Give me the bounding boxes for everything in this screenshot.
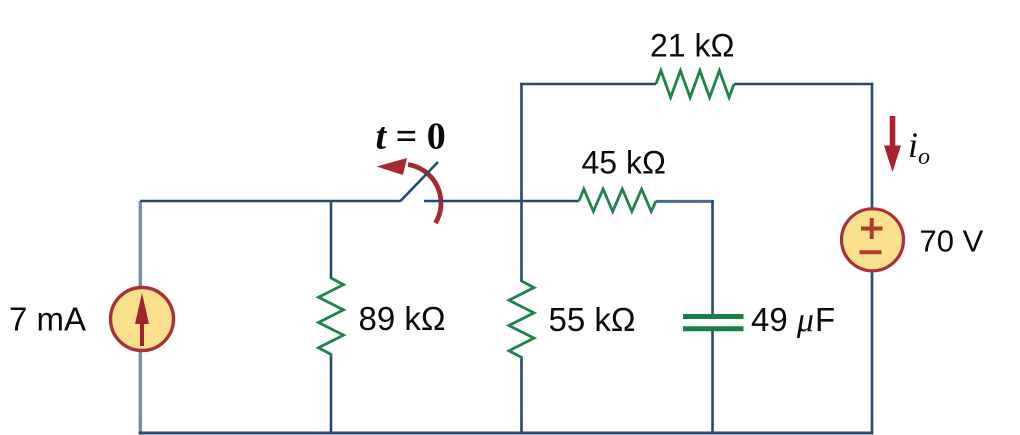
svg-text:89 kΩ: 89 kΩ: [359, 300, 446, 337]
svg-text:io: io: [908, 125, 930, 170]
wire 55k branch bottom lead: [520, 358, 523, 434]
svg-text:49 μF: 49 μF: [751, 301, 835, 339]
wire capacitor bottom lead: [711, 331, 714, 434]
svg-text:70 V: 70 V: [920, 224, 984, 259]
capacitor C 49 uF plates: [683, 314, 744, 319]
voltage source V1 70 V: [842, 209, 904, 271]
resistor 89 kOhm (vertical zigzag): [319, 278, 344, 357]
svg-text:21 kΩ: 21 kΩ: [650, 28, 734, 64]
wire capacitor top lead: [711, 200, 714, 314]
wire 55k branch top lead / left side of 21k loop: [520, 83, 523, 282]
svg-text:55 kΩ: 55 kΩ: [549, 301, 636, 338]
wire right vertical: [871, 83, 874, 434]
resistor 21 kOhm (horizontal zigzag): [656, 71, 734, 98]
switch blade: [400, 162, 438, 202]
current source I1 7 mA: [111, 288, 174, 351]
switch actuation arc t=0: [377, 158, 441, 223]
wire middle horizontal switch to 45k: [424, 200, 579, 203]
wire bottom: [139, 432, 874, 435]
wire 89k branch bottom lead: [330, 356, 333, 434]
wire top horizontal left of 21k: [520, 83, 656, 86]
wire 89k branch top lead: [330, 201, 333, 279]
svg-text:t = 0: t = 0: [376, 116, 446, 158]
wire middle horizontal left of switch: [140, 200, 400, 203]
resistor 45 kOhm (horizontal zigzag): [579, 189, 656, 212]
svg-text:7 mA: 7 mA: [9, 301, 86, 338]
wire top horizontal right of 21k: [734, 83, 873, 86]
svg-text:45 kΩ: 45 kΩ: [582, 145, 666, 181]
arrow io (current direction): [884, 116, 901, 172]
wire left vertical: [139, 201, 142, 433]
resistor 55 kOhm (vertical zigzag): [509, 281, 534, 359]
wire 45k to capacitor corner: [656, 200, 714, 203]
